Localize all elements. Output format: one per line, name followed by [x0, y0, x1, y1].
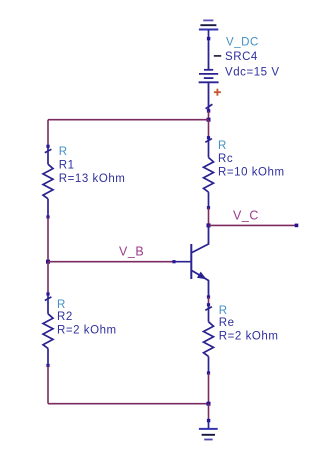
svg-text:SRC4: SRC4 — [225, 51, 258, 63]
wire from SRC4 to top rail — [208, 111, 210, 120]
wire V_B rail — [48, 261, 174, 263]
node bottom junction — [207, 402, 211, 406]
wire V_B node to R2 — [47, 262, 49, 294]
wire V_C rail — [209, 224, 297, 226]
svg-text:R=2 kOhm: R=2 kOhm — [57, 324, 117, 336]
svg-text:Rc: Rc — [218, 153, 233, 165]
voltage source plus sign — [214, 89, 221, 96]
resistor R2 — [43, 292, 53, 367]
resistor R1 — [43, 145, 53, 219]
svg-text:R1: R1 — [59, 160, 75, 172]
svg-text:Re: Re — [219, 317, 235, 329]
wire emitter to Re — [208, 297, 210, 305]
wire Rc to V_C node — [208, 208, 210, 226]
ground GND2 pin square — [207, 419, 210, 422]
svg-text:Vdc=15 V: Vdc=15 V — [225, 67, 280, 79]
svg-text:R: R — [59, 146, 68, 158]
svg-text:R: R — [218, 140, 227, 152]
wire R1 to V_B node — [47, 217, 49, 262]
voltage source minus sign — [214, 55, 221, 57]
svg-text:R: R — [57, 299, 66, 311]
wire bottom junction to ground — [208, 404, 210, 421]
node junction top (Vcc) — [207, 118, 211, 122]
svg-text:R=13 kOhm: R=13 kOhm — [59, 173, 126, 185]
wire top rail — [48, 119, 209, 121]
ground GND2 (bottom) — [199, 421, 218, 440]
voltage source SRC4 pin square — [207, 109, 210, 112]
svg-text:V_C: V_C — [233, 208, 259, 222]
wire R2 to bottom rail — [47, 366, 49, 404]
resistor Rc — [204, 136, 214, 209]
svg-text:R2: R2 — [57, 311, 73, 323]
wire V_C end pin square — [295, 224, 299, 228]
svg-text:V_DC: V_DC — [226, 37, 259, 49]
transistor Q1 (NPN BJT) — [172, 225, 208, 297]
svg-text:V_B: V_B — [119, 245, 144, 259]
svg-text:R=2 kOhm: R=2 kOhm — [219, 331, 279, 343]
ground GND1 (top, flipped) — [199, 20, 218, 43]
wire left vertical to R1 — [47, 120, 49, 147]
transistor emitter pin square — [207, 295, 210, 298]
resistor Re — [204, 303, 214, 374]
voltage source SRC4 (battery) — [199, 43, 219, 111]
ground GND1 pin square — [207, 37, 210, 40]
node V_B junction — [46, 260, 50, 264]
wire top junction to Rc — [208, 120, 210, 138]
wire Re to bottom junction — [208, 373, 210, 404]
node V_C junction — [207, 223, 211, 227]
wire bottom rail — [48, 403, 209, 405]
svg-text:R: R — [219, 305, 228, 317]
svg-text:R=10 kOhm: R=10 kOhm — [218, 166, 285, 178]
